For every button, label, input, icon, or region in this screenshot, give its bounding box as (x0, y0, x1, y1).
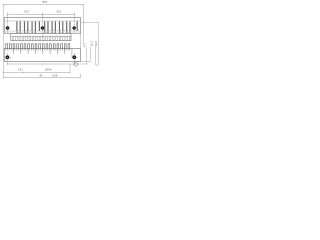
wire centreline hole C (73, 12, 75, 33)
node bottom view pin marks (6, 49, 70, 51)
wire leader y22.6 (81, 22, 99, 24)
wire centreline hole A (7, 12, 9, 33)
svg-text:5.08: 5.08 (52, 73, 58, 77)
node dimension row A (3, 71, 70, 73)
wire inner bottom line (4, 30, 80, 32)
node bottom view body outline (4, 48, 80, 61)
wire vertical dim x90 (89, 47, 91, 62)
wire connector y61.5 (80, 61, 90, 63)
wire vertical dim x98 (98, 23, 100, 66)
node bottom view pin teeth (6, 44, 70, 49)
node detail circle (74, 62, 78, 66)
svg-text:11.5: 11.5 (94, 41, 98, 46)
svg-text:78.5: 78.5 (42, 0, 48, 4)
node front view body outline (4, 18, 80, 34)
svg-text:15.1: 15.1 (90, 41, 94, 47)
wire connector y65.2 (96, 64, 99, 66)
wire right edge extension (79, 33, 81, 48)
hole front view C (71, 27, 78, 29)
wire vertical dim x86 (85, 47, 87, 64)
svg-text:33.5: 33.5 (24, 10, 30, 14)
hole front view A (4, 27, 11, 29)
svg-text:18.54: 18.54 (45, 68, 52, 72)
node dimension row B 42 (3, 77, 80, 79)
node bar stubs (16, 31, 70, 33)
hole bottom view D (6, 53, 8, 65)
wire inner top line (4, 20, 80, 22)
wire left extension line (3, 4, 5, 78)
svg-text:30.1: 30.1 (56, 9, 62, 13)
node terminal contact bars (16, 21, 77, 31)
hole front view B (39, 27, 46, 29)
wire dimension line y64 (7, 63, 86, 65)
hole bottom view E (73, 53, 75, 64)
wire right extension line x83 (82, 4, 84, 44)
node bottom view dividers (14, 48, 72, 56)
svg-text:14.1: 14.1 (18, 68, 24, 72)
wire centreline hole B (42, 12, 44, 36)
node dimension ticks (3, 4, 87, 78)
wire vertical dim x95 (95, 46, 97, 65)
node top overall dimension 78.5 (4, 4, 84, 6)
node dimension 33.5 (8, 13, 75, 15)
node front view pin comb (11, 33, 71, 40)
